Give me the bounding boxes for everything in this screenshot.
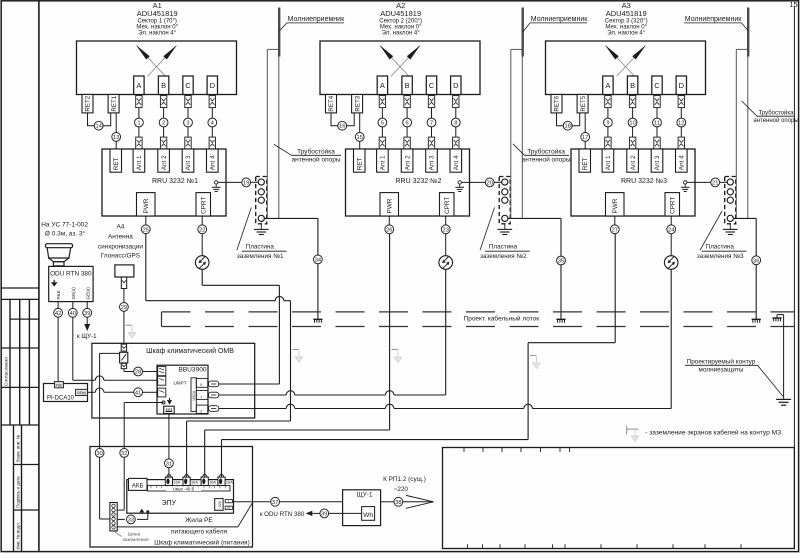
Wh meter	[362, 507, 375, 521]
RRU1 port PWR	[137, 193, 156, 216]
svg-text:15: 15	[357, 135, 363, 141]
GPS surge arrester	[120, 352, 128, 363]
grounding plate 2	[499, 177, 510, 224]
svg-text:B: B	[630, 81, 635, 90]
EPU breaker 1 16A	[168, 474, 170, 477]
CPRT cable RRU2	[445, 216, 447, 225]
wire port B to RRU2	[406, 108, 408, 119]
wire port D to RRU1	[211, 108, 213, 119]
RRU2 port CPRT	[440, 193, 455, 216]
antenna A2 port B	[402, 76, 412, 95]
RRU1 port RET	[110, 149, 122, 172]
cable number 3	[184, 118, 193, 127]
svg-text:Ant 4: Ant 4	[453, 155, 460, 170]
connector at RRU2 Ant2	[404, 137, 410, 149]
plate 3 earth symbol	[729, 224, 731, 230]
antenna A3 port C	[652, 76, 662, 95]
svg-text:8: 8	[454, 121, 457, 127]
cable number 25	[141, 225, 150, 234]
svg-text:23: 23	[443, 227, 449, 233]
EPU breaker 2 16A	[186, 474, 188, 477]
cable number 35	[557, 256, 566, 265]
plate 1 earthing wire	[264, 217, 318, 219]
tray ground comb 2	[556, 318, 565, 320]
cable number 1	[135, 118, 144, 127]
connector on A2 port B	[404, 96, 410, 108]
wire port C to RRU1	[187, 108, 189, 119]
cable number 24	[667, 225, 676, 234]
BBU port GPS-in	[158, 367, 166, 376]
RRU1 port Ant4	[207, 149, 219, 172]
svg-text:Ant 3: Ant 3	[654, 155, 661, 170]
svg-text:26: 26	[386, 227, 392, 233]
svg-text:RET: RET	[113, 157, 120, 170]
PWR cable RRU2	[388, 216, 390, 225]
svg-text:Трубостойка: Трубостойка	[759, 109, 795, 116]
ground wire RRU3 to plate 3	[687, 181, 711, 183]
svg-text:К РП1.2 (сущ.): К РП1.2 (сущ.)	[383, 476, 426, 483]
svg-text:D: D	[679, 81, 685, 90]
svg-text:Ant 2: Ant 2	[161, 155, 168, 170]
cable number 8	[451, 118, 460, 127]
svg-text:Ant 3: Ant 3	[429, 155, 436, 170]
connector on A1 port C	[185, 96, 191, 108]
RRU3 port Ant3	[651, 149, 663, 172]
svg-text:1: 1	[137, 121, 140, 127]
title block (empty)	[443, 448, 795, 549]
antenna A1 port RET1	[108, 95, 119, 113]
svg-text:Ant 4: Ant 4	[210, 155, 217, 170]
svg-text:RET1: RET1	[111, 95, 118, 111]
svg-text:29: 29	[121, 305, 127, 311]
svg-text:ODU RTN 380: ODU RTN 380	[50, 270, 92, 277]
wire ЩУ-1 to РП1.2 (38)	[381, 501, 395, 503]
ODU GE(o) cable	[72, 302, 74, 309]
svg-text:D: D	[210, 81, 216, 90]
EPU breaker 3 16A	[204, 474, 206, 477]
svg-text:5: 5	[381, 121, 384, 127]
svg-text:2: 2	[200, 410, 202, 414]
BBU CPRI1 plug	[209, 392, 219, 398]
svg-text:USCU: USCU	[192, 390, 196, 400]
cable number 42	[54, 308, 63, 317]
svg-text:антенной опоры: антенной опоры	[522, 155, 571, 163]
antenna A3 crossed-arrow symbol	[606, 46, 635, 76]
BBU -48V input port	[164, 406, 175, 413]
antenna A3 port D	[676, 76, 686, 95]
legend shield grounding symbol	[626, 426, 628, 435]
svg-text:RRU 3232 №1: RRU 3232 №1	[152, 178, 198, 185]
svg-text:антенной опоры: антенной опоры	[292, 155, 341, 163]
antenna mast 3	[735, 49, 737, 218]
svg-text:АКБ: АКБ	[132, 483, 144, 490]
svg-text:0: 0	[200, 383, 202, 387]
svg-text:Ant 1: Ant 1	[605, 155, 612, 170]
connector at RRU1 Ant4	[209, 137, 215, 149]
svg-text:39: 39	[321, 511, 327, 517]
RRU2 port PWR	[380, 193, 399, 216]
cable tray label	[458, 313, 545, 323]
cable number 11	[653, 118, 662, 127]
RRU1 ground pin	[215, 181, 218, 184]
wire port D to RRU2	[455, 108, 457, 119]
RET control wire A1	[115, 113, 117, 133]
cable number 18	[563, 121, 572, 130]
svg-text:42: 42	[55, 311, 61, 317]
wire port A to RRU1	[138, 108, 140, 119]
connector at RRU3 Ant4	[678, 137, 684, 149]
svg-text:заземления: заземления	[122, 538, 149, 543]
antenna A2 port D	[451, 76, 461, 95]
ODU power cable to ЩУ-1	[86, 302, 88, 309]
EPU AC input port	[215, 499, 223, 511]
BBU -48V cable 31	[168, 414, 170, 460]
svg-text:ADU451819: ADU451819	[380, 9, 421, 18]
svg-text:ADU451819: ADU451819	[137, 9, 178, 18]
cable number 30	[95, 449, 104, 458]
svg-text:16А: 16А	[191, 479, 198, 484]
plate 1 earth symbol	[260, 224, 262, 230]
svg-text:Ant 3: Ant 3	[185, 155, 192, 170]
svg-text:UMPT: UMPT	[173, 381, 186, 386]
svg-text:15: 15	[789, 0, 797, 9]
antenna A2 port RET3	[352, 95, 363, 113]
svg-text:C: C	[654, 81, 660, 90]
cable number 2	[159, 118, 168, 127]
svg-text:35: 35	[558, 259, 564, 265]
antenna A1 port RET2	[82, 95, 93, 113]
BBU CPRI0 plug	[209, 381, 219, 387]
svg-text:Wh: Wh	[363, 512, 373, 519]
antenna A3 port RET5	[577, 95, 588, 113]
cable number 13	[112, 133, 121, 142]
svg-text:заземления №3: заземления №3	[697, 253, 744, 260]
PE conductor wire	[117, 526, 238, 528]
svg-text:25: 25	[143, 227, 149, 233]
svg-text:A: A	[136, 81, 141, 90]
cable number 14	[94, 121, 103, 130]
svg-text:Эл. наклон 4°: Эл. наклон 4°	[607, 31, 646, 37]
svg-text:30: 30	[96, 451, 102, 457]
connector on A2 port D	[453, 96, 459, 108]
svg-text:Жила PE: Жила PE	[185, 517, 213, 524]
cable number 39	[320, 509, 329, 518]
wire ЩУ-1 to ODU (39)	[329, 512, 362, 514]
EPU busbar	[148, 485, 231, 491]
connector on A2 port C	[428, 96, 434, 108]
svg-text:GE(o): GE(o)	[71, 287, 76, 300]
svg-text:P&E: P&E	[56, 290, 61, 299]
svg-text:GE(e): GE(e)	[77, 391, 86, 395]
svg-text:Молниеприемник: Молниеприемник	[288, 16, 345, 23]
svg-text:1: 1	[200, 395, 202, 399]
antenna mast 1	[266, 49, 268, 218]
svg-text:~220: ~220	[218, 501, 222, 509]
connector at RRU2 Ant3	[428, 137, 434, 149]
svg-text:молниезащиты: молниезащиты	[699, 366, 744, 373]
svg-text:RRU 3232 №3: RRU 3232 №3	[621, 178, 667, 185]
inventory strip	[13, 425, 15, 552]
lightning contour earth symbol	[776, 398, 791, 400]
antenna A2 port RET4	[326, 95, 337, 113]
svg-text:Трубостойка: Трубостойка	[527, 147, 565, 155]
connector at RRU3 Ant1	[605, 137, 611, 149]
RRU3 port PWR	[606, 193, 625, 216]
svg-text:синхронизации: синхронизации	[98, 244, 143, 251]
cable number 6	[403, 118, 412, 127]
svg-text:A: A	[605, 81, 610, 90]
svg-text:Трубостойка: Трубостойка	[297, 147, 335, 155]
svg-text:~220: ~220	[394, 486, 409, 493]
antenna A3 port RET6	[551, 95, 562, 113]
lightning rod 2	[522, 8, 524, 57]
connector at RRU2 Ant1	[379, 137, 385, 149]
svg-text:14: 14	[96, 124, 102, 130]
RRU1 port Ant1	[133, 149, 145, 172]
arrester earthing wire	[100, 352, 120, 354]
svg-text:CPRT: CPRT	[201, 197, 208, 214]
PWR cable RRU1	[145, 216, 147, 225]
approval strip	[1, 287, 39, 289]
svg-text:Шкаф климатический ОМВ: Шкаф климатический ОМВ	[146, 347, 234, 355]
grounding plate 1	[256, 177, 267, 224]
connector on A1 port A	[136, 96, 142, 108]
svg-text:PWR: PWR	[612, 198, 619, 213]
svg-text:18: 18	[565, 124, 571, 130]
connector on A1 port B	[160, 96, 166, 108]
cable number 26	[385, 225, 394, 234]
connector at RRU1 Ant3	[185, 137, 191, 149]
PWR cable RRU3	[614, 216, 616, 225]
AKB battery	[129, 478, 148, 490]
svg-text:16А: 16А	[226, 479, 233, 484]
PI-DCA10 unit	[44, 384, 88, 402]
cable number 31	[165, 459, 174, 468]
svg-text:ЩУ-1: ЩУ-1	[356, 492, 372, 499]
svg-text:9: 9	[606, 121, 609, 127]
svg-text:16А: 16А	[173, 479, 180, 484]
cable number 37	[271, 497, 280, 506]
RRU1 port Ant2	[158, 149, 170, 172]
cable number 10	[628, 118, 637, 127]
RRU 3232 #2 body	[346, 149, 470, 216]
plate 3 earthing wire	[733, 217, 756, 219]
svg-text:24: 24	[668, 227, 674, 233]
wire port B to RRU3	[632, 108, 634, 119]
cable number 7	[427, 118, 436, 127]
RRU 3232 #1 body	[102, 149, 226, 216]
cable number 33	[126, 515, 135, 524]
ground bus	[110, 503, 117, 531]
svg-text:Ant 1: Ant 1	[380, 155, 387, 170]
RRU3 port Ant2	[627, 149, 639, 172]
svg-text:На УС 77-1-002: На УС 77-1-002	[41, 221, 88, 228]
connector on A3 port D	[678, 96, 684, 108]
svg-text:D: D	[453, 81, 459, 90]
svg-text:PWR: PWR	[143, 198, 150, 213]
cable number 17	[581, 133, 590, 142]
svg-text:RET4: RET4	[328, 95, 335, 111]
RRU3 port CPRT	[665, 193, 680, 216]
optical joint symbol 1	[195, 256, 209, 270]
svg-text:RET2: RET2	[85, 95, 92, 111]
BBU CPRI1 port	[196, 390, 208, 399]
cable number 34	[314, 255, 323, 264]
OMB climate cabinet	[92, 343, 255, 418]
CPRI fiber cable 22 run	[201, 269, 203, 285]
svg-text:Ant 1: Ant 1	[136, 155, 143, 170]
svg-text:RET5: RET5	[580, 95, 587, 111]
PWR cable 27 run	[614, 234, 616, 343]
CPRI fiber cable 23 run	[445, 269, 447, 395]
cable number 12	[677, 118, 686, 127]
EPU breaker 4 16A	[221, 474, 223, 477]
svg-text:37: 37	[272, 500, 278, 506]
svg-text:B: B	[405, 81, 410, 90]
PWR cable 25 run	[145, 234, 147, 301]
wire bus to EPU plus (33)	[117, 518, 125, 520]
svg-text:заземления №2: заземления №2	[480, 253, 527, 260]
BBU port GE electrical	[158, 388, 166, 397]
svg-text:36: 36	[753, 258, 759, 264]
svg-text:Uвых -48 В: Uвых -48 В	[173, 487, 195, 492]
antenna A1 port C	[183, 76, 193, 95]
plate 2 earthing wire	[508, 217, 562, 219]
svg-text:RRU 3232 №2: RRU 3232 №2	[395, 178, 441, 185]
svg-text:Ant 4: Ant 4	[679, 155, 686, 170]
cable number 38	[394, 497, 403, 506]
svg-text:Эл. наклон 4°: Эл. наклон 4°	[382, 31, 421, 37]
GPS wire to BBU	[123, 369, 125, 372]
antenna mast 2	[510, 49, 512, 218]
svg-text:ЭПУ: ЭПУ	[161, 500, 176, 507]
RRU3 port Ant1	[602, 149, 614, 172]
svg-text:6: 6	[406, 121, 409, 127]
svg-text:C: C	[429, 81, 435, 90]
EPU unit	[127, 480, 234, 514]
PI-DCA10 GE wire 41	[88, 391, 96, 393]
RRU1 port Ant3	[182, 149, 194, 172]
BBU ground wire 32	[124, 402, 163, 404]
BBU ground point	[162, 401, 165, 404]
wire port C to RRU3	[656, 108, 658, 119]
svg-text:Глонасс/GPS: Глонасс/GPS	[101, 253, 140, 260]
svg-text:Антенна: Антенна	[108, 234, 133, 241]
cable number 39	[83, 308, 92, 317]
antenna A2 body	[320, 41, 480, 95]
svg-text:Ant 2: Ant 2	[630, 155, 637, 170]
RET jumper wire A2	[331, 113, 338, 126]
wire port A to RRU3	[607, 108, 609, 119]
wire EPU to ЩУ-1 (37)	[232, 501, 270, 503]
shield ground symbol near PWR1	[292, 349, 299, 351]
shield ground symbol near GPS cable	[126, 324, 133, 326]
wire port B to RRU1	[163, 108, 165, 119]
cable number 32	[120, 449, 129, 458]
connector on A2 port A	[379, 96, 385, 108]
antenna A3 port A	[603, 76, 613, 95]
svg-text:L: L	[228, 499, 230, 503]
BBU3900 body	[157, 365, 208, 414]
svg-text:21: 21	[712, 180, 718, 186]
cable number 27	[610, 225, 619, 234]
svg-text:Молниеприемник: Молниеприемник	[685, 16, 742, 23]
RRU2 ground pin	[458, 181, 461, 184]
svg-text:10: 10	[629, 121, 635, 127]
ground wire RRU1 to plate 1	[218, 181, 242, 183]
cable number 28	[134, 367, 143, 376]
svg-text:Подпись и дата: Подпись и дата	[16, 476, 21, 508]
optical joint symbol 3	[664, 256, 678, 270]
svg-text:C: C	[185, 81, 191, 90]
svg-text:BBU3900: BBU3900	[178, 366, 207, 373]
cable number 40	[68, 308, 77, 317]
GPS cable	[123, 289, 125, 303]
CPRT cable RRU1	[201, 216, 203, 225]
antenna A2 port A	[377, 76, 387, 95]
svg-text:Ant 2: Ant 2	[404, 155, 411, 170]
antenna A3 port B	[627, 76, 637, 95]
svg-text:к ODU RTN 380: к ODU RTN 380	[260, 511, 305, 518]
svg-text:антенной опоры: антенной опоры	[753, 117, 798, 124]
GPS antenna symbol	[115, 265, 134, 277]
svg-text:Шина: Шина	[128, 531, 141, 537]
svg-text:32: 32	[121, 451, 127, 457]
CPRI fiber cable 24 run	[670, 269, 672, 408]
contour jog at tray	[772, 317, 781, 319]
inner frame left line	[38, 1, 40, 552]
optical joint symbol 2	[439, 256, 453, 270]
RET control wire A3	[584, 113, 586, 133]
svg-text:PI-DCA10: PI-DCA10	[47, 395, 75, 401]
RRU 3232 #3 body	[571, 149, 695, 216]
BBU CPRI0 port	[196, 378, 208, 387]
RRU3 port Ant4	[676, 149, 688, 172]
ЩУ-1 box	[343, 490, 381, 526]
power climate cabinet	[90, 447, 253, 548]
svg-text:22: 22	[199, 227, 205, 233]
antenna A3 body	[546, 41, 706, 95]
RRU2 port Ant1	[377, 149, 389, 172]
svg-text:GE(e): GE(e)	[85, 287, 90, 300]
svg-text:ADU451819: ADU451819	[606, 9, 647, 18]
svg-text:11: 11	[654, 121, 660, 127]
svg-text:39: 39	[84, 311, 90, 317]
svg-text:Взам. инв. №: Взам. инв. №	[16, 435, 21, 462]
wire port D to RRU3	[680, 108, 682, 119]
connector at RRU1 Ant2	[160, 137, 166, 149]
svg-text:PWR: PWR	[387, 198, 394, 213]
svg-text:А4: А4	[116, 223, 124, 230]
cable number 5	[378, 118, 387, 127]
RET control wire A2	[359, 113, 361, 133]
RRU2 port Ant3	[426, 149, 438, 172]
svg-text:Молниеприемник: Молниеприемник	[531, 16, 588, 23]
connector at RRU2 Ant4	[453, 137, 459, 149]
cable number 29	[120, 303, 129, 312]
svg-text:Ø 0.3м, аз. 3°: Ø 0.3м, аз. 3°	[45, 229, 86, 237]
plate 2 earth symbol	[504, 224, 506, 230]
antenna A1 port D	[207, 76, 217, 95]
svg-text:31: 31	[166, 461, 172, 467]
cable number 22	[198, 225, 207, 234]
svg-text:B: B	[161, 81, 166, 90]
svg-text:к ЩУ-1: к ЩУ-1	[77, 333, 97, 340]
BBU CPRI2 plug	[209, 406, 219, 412]
svg-text:Проектируемый контур: Проектируемый контур	[687, 357, 756, 365]
BBU CPRI2 port	[196, 405, 208, 413]
BBU port GE optical	[158, 376, 166, 385]
